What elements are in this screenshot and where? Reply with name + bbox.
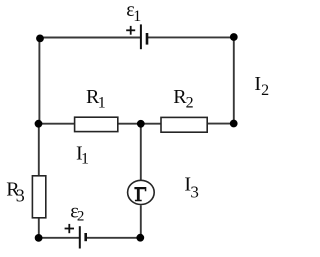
svg-text:3: 3 xyxy=(16,186,25,206)
svg-text:1: 1 xyxy=(133,8,141,25)
svg-text:2: 2 xyxy=(77,209,85,225)
svg-text:I: I xyxy=(254,73,261,95)
svg-text:3: 3 xyxy=(190,182,199,201)
svg-text:2: 2 xyxy=(186,95,194,112)
svg-text:1: 1 xyxy=(98,95,106,112)
svg-text:2: 2 xyxy=(261,82,269,99)
svg-text:1: 1 xyxy=(81,151,89,168)
